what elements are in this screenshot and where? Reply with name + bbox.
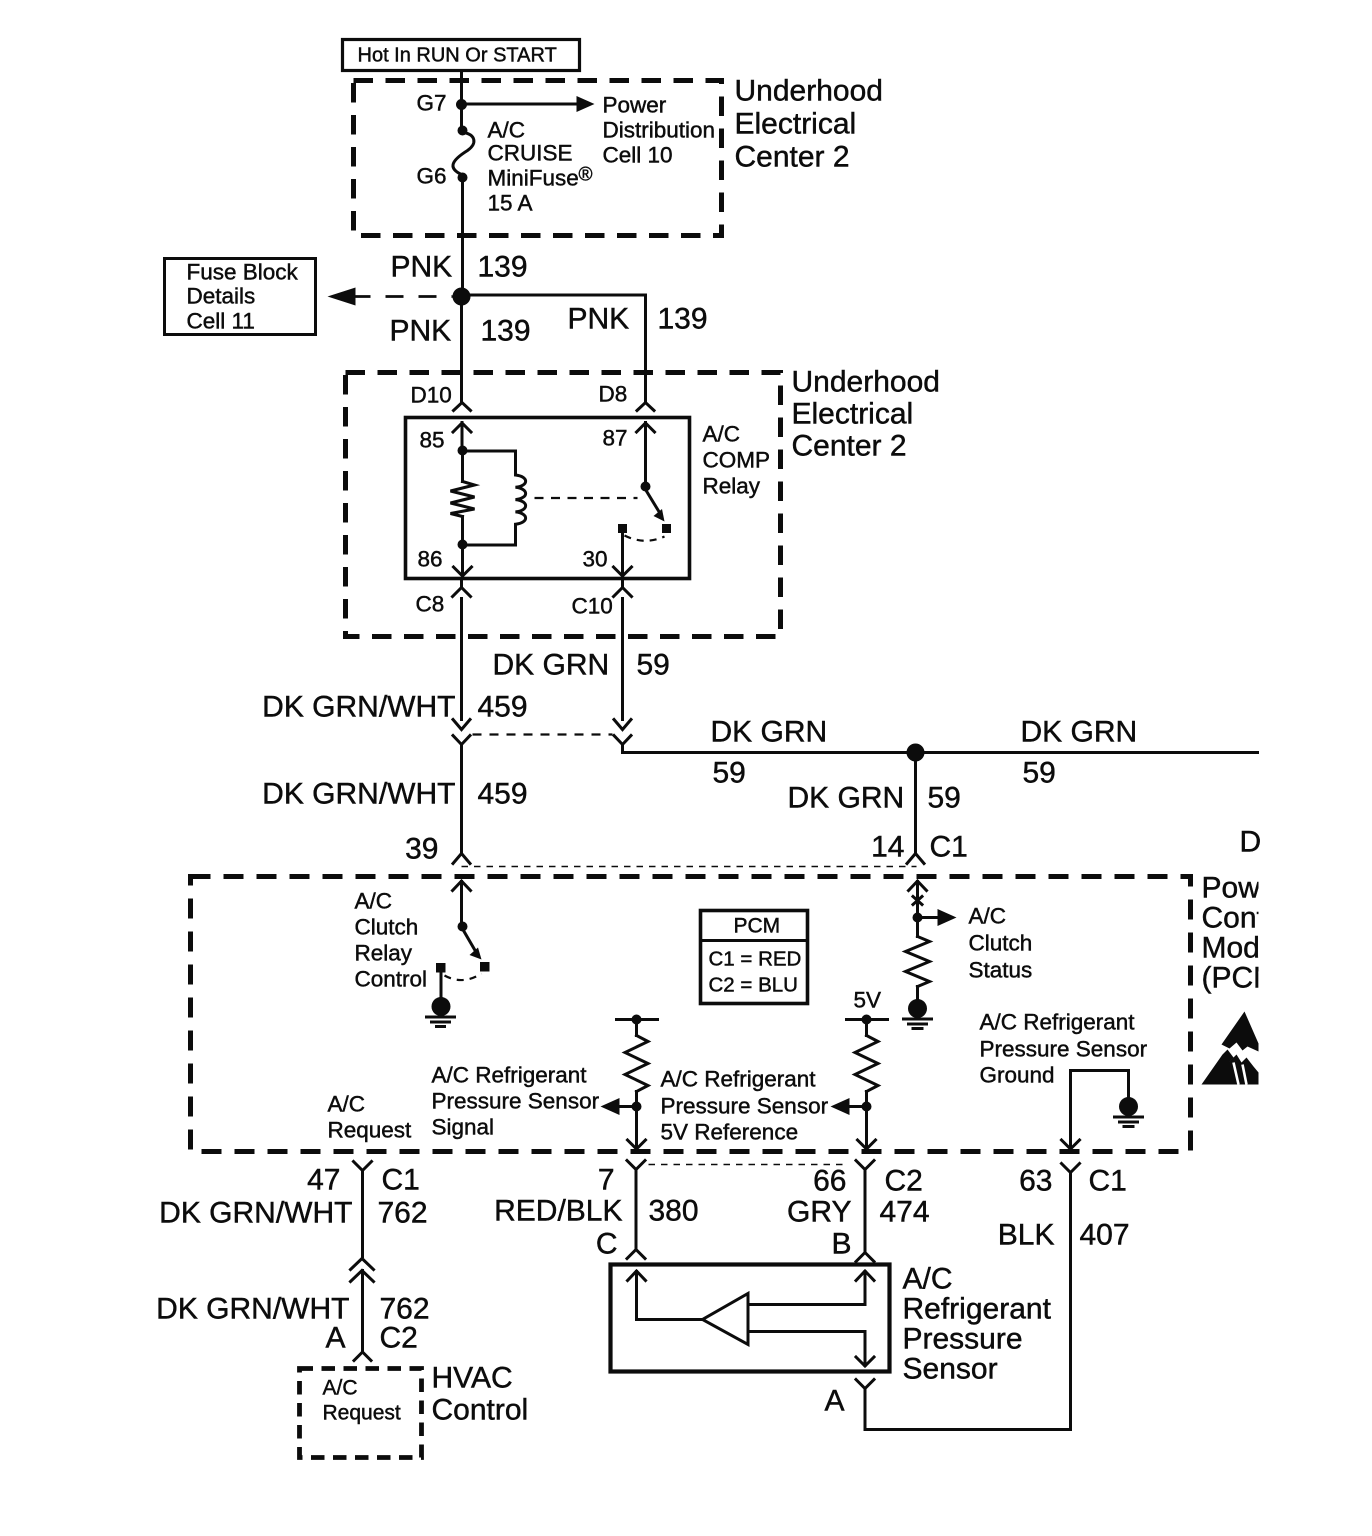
node 5V reference [862,1102,872,1112]
svg-text:474: 474 [880,1196,930,1229]
dashed connector line pins 39-14 [462,866,917,868]
svg-text:14: 14 [871,831,904,864]
svg-text:DK GRN/WHT: DK GRN/WHT [156,1293,349,1326]
svg-text:Electrical: Electrical [735,108,857,141]
sensor internal: amp output run [637,1318,703,1321]
label BLK 407 [998,1219,1130,1252]
node 5V [862,1015,872,1025]
sensor internal: lower run to pin A with down arrow [748,1332,874,1367]
wire signal down to pin 7 [628,1107,646,1150]
svg-text:Cell 10: Cell 10 [603,143,673,168]
svg-text:COMP: COMP [703,448,771,473]
arrow to 5V Reference label [831,1098,867,1115]
svg-text:Power: Power [1202,872,1287,905]
svg-text:Clutch: Clutch [355,915,419,940]
relay coil resistor [451,456,475,540]
svg-text:B: B [831,1228,851,1261]
svg-text:G7: G7 [417,91,447,116]
dashed link coil to switch [535,497,638,499]
svg-text:Module: Module [1202,932,1300,965]
svg-text:Center 2: Center 2 [735,141,850,174]
svg-text:Cell 11: Cell 11 [187,309,255,334]
svg-text:C8: C8 [416,592,445,617]
svg-text:C2: C2 [380,1322,418,1355]
svg-text:DK GRN: DK GRN [711,716,828,749]
inline connector on 59 wire [614,720,631,745]
svg-text:Ground: Ground [980,1063,1055,1088]
svg-text:Fuse Block: Fuse Block [187,260,299,285]
underhood electrical center 2 box (top) [354,81,722,236]
svg-text:407: 407 [1080,1219,1130,1252]
ground (clutch status) [904,999,932,1029]
svg-text:GRY: GRY [787,1196,851,1229]
svg-text:459: 459 [478,691,528,724]
svg-text:C1 = RED: C1 = RED [709,948,802,971]
pin 86 arrow down [418,545,472,577]
svg-text:30: 30 [583,547,608,572]
svg-text:Request: Request [328,1118,413,1143]
pin C10 [572,579,632,619]
wire C8 down to connector 459 [460,599,463,720]
label A/C Clutch Relay Control [355,889,428,992]
svg-text:A/C: A/C [488,118,526,143]
svg-text:MiniFuse: MiniFuse [488,166,579,191]
5V supply bar [847,1018,888,1021]
svg-text:C1: C1 [1089,1165,1127,1198]
dashed arc between contacts [445,974,482,981]
svg-text:DK GRN/WHT: DK GRN/WHT [262,691,455,724]
label A/C Refrigerant Pressure Sensor [903,1263,1052,1386]
pin 39 connector half [453,854,470,864]
pin 63 labels [1019,1165,1127,1198]
label A/C Clutch Status [969,904,1033,983]
dashed arc between contacts [625,536,665,541]
svg-text:380: 380 [649,1195,699,1228]
svg-text:59: 59 [928,782,961,815]
svg-text:PNK: PNK [568,303,630,336]
svg-text:Hot In RUN Or START: Hot In RUN Or START [358,45,557,67]
wire C10 down to connector 59 [621,599,624,720]
svg-text:(PCM): (PCM) [1202,962,1289,995]
svg-text:C1: C1 [382,1164,420,1197]
5V resistor [855,1020,878,1102]
relay switch pivot [641,482,651,492]
label DK GRN 59 (vertical pair) [493,649,670,682]
svg-text:459: 459 [478,778,528,811]
svg-text:Refrigerant: Refrigerant [903,1293,1052,1326]
svg-text:15 A: 15 A [488,191,533,216]
svg-text:DK GRN: DK GRN [493,649,610,682]
svg-text:Clutch: Clutch [969,931,1033,956]
node PNK junction [453,288,471,306]
label A/C Request (PCM) [328,1092,413,1143]
HVAC control dashed box [300,1369,422,1458]
pin 14 arrow into PCM [909,881,927,914]
wire pin 66 down to sensor [864,1178,867,1253]
svg-text:Power: Power [603,93,667,118]
dashed connector line pins 7-66 [649,1164,849,1166]
svg-text:63: 63 [1019,1165,1052,1198]
svg-text:PCM: PCM [734,915,781,938]
sensor internal: pin C arrow up [628,1271,646,1320]
svg-text:Signal: Signal [432,1115,495,1140]
label GRY 474 [787,1196,930,1229]
svg-text:®: ® [579,165,593,186]
arrow to Signal label [601,1098,637,1115]
svg-text:C2: C2 [885,1165,923,1198]
pin 87 arrow into relay [603,423,655,483]
PCM dashed box [191,877,1191,1152]
node 85 [458,446,468,456]
wire from hot box into UEC2 [460,71,463,127]
svg-text:A/C: A/C [703,422,741,447]
wire junction to D8 branch (right) [462,294,646,297]
svg-text:A/C: A/C [969,904,1007,929]
label A/C COMP Relay [703,422,771,499]
relay box A/C COMP [406,418,690,579]
svg-text:D10: D10 [411,383,452,408]
label PNK 139 (right branch) [568,303,708,336]
sensor internal: amplifier triangle [703,1294,749,1345]
label HVAC Control [432,1362,529,1427]
svg-text:A/C Refrigerant: A/C Refrigerant [432,1063,588,1088]
svg-text:RED/BLK: RED/BLK [494,1195,622,1228]
node G7 [456,99,467,110]
svg-text:139: 139 [658,303,708,336]
svg-text:139: 139 [478,251,528,284]
svg-text:A: A [824,1385,844,1418]
svg-text:47: 47 [307,1164,340,1197]
wire 459 down to pin 39 [460,745,463,853]
svg-text:59: 59 [1023,757,1056,790]
svg-text:Pressure Sensor: Pressure Sensor [432,1089,600,1114]
label DK GRN 59 (right of junction) [1021,716,1138,790]
arrow to A/C Clutch Status [918,909,957,926]
svg-text:139: 139 [481,315,531,348]
pin 63 connector [1062,1164,1080,1181]
signal pullup bar [617,1018,658,1021]
svg-text:DK GRN/WHT: DK GRN/WHT [262,778,455,811]
svg-text:DK GRN/WHT: DK GRN/WHT [159,1197,352,1230]
svg-text:762: 762 [378,1197,428,1230]
pin 7 labels [598,1164,615,1197]
pin 66 labels [813,1165,923,1198]
clutch status resistor [906,923,930,999]
label PNK 139 (above junction) [391,251,528,284]
wire G7 to power distribution arrow [462,103,581,106]
svg-text:Control: Control [355,967,428,992]
label Underhood Electrical Center 2 (top) [735,75,883,174]
svg-text:BLK: BLK [998,1219,1055,1252]
label A/C Request (HVAC) [323,1377,401,1425]
hot-in-run box [343,40,580,71]
svg-text:87: 87 [603,426,628,451]
ground (clutch relay control) [427,997,455,1027]
x mark on clutch status wire [913,897,922,905]
inline connector on 459 wire [453,720,470,745]
HVAC connector half [354,1352,371,1361]
wire pin 47 down [361,1178,364,1257]
label A/C Refrigerant Pressure Sensor 5V Reference [661,1067,829,1145]
svg-text:DK GRN: DK GRN [788,782,905,815]
svg-text:G6: G6 [417,164,447,189]
wire pin63 down arrow [1062,1140,1080,1149]
svg-text:D: D [1240,826,1262,859]
wire break symbol [351,1259,374,1282]
pin 66 connector [856,1161,874,1178]
label DK GRN/WHT 762 (upper) [159,1197,427,1230]
svg-text:Pressure: Pressure [903,1323,1023,1356]
signal resistor [625,1020,648,1102]
ESD symbol (clipped) [1202,1012,1259,1085]
wire pin 7 down to sensor [635,1178,638,1250]
svg-text:Sensor: Sensor [903,1353,998,1386]
svg-text:39: 39 [405,833,438,866]
svg-text:Details: Details [187,284,256,309]
label DK GRN 59 (left of junction) [711,716,828,790]
pin 14 label [871,831,968,864]
wire fuse down through box1 to junction [461,183,464,292]
dashed arrow to fuse block [328,288,453,306]
svg-text:Center 2: Center 2 [792,430,907,463]
pin D8 [599,382,655,411]
wire 59 bend to long horizontal DK GRN [623,745,1258,753]
label Power Distribution Cell 10 [603,93,716,168]
svg-text:PNK: PNK [390,315,452,348]
label Power Control Module (PCM) clipped at right [1202,872,1300,995]
svg-text:C: C [596,1228,618,1261]
svg-text:Pressure Sensor: Pressure Sensor [980,1037,1148,1062]
ground (pressure sensor) [1115,1097,1143,1127]
relay coil [463,451,526,545]
pin B connector [856,1253,874,1262]
svg-text:59: 59 [637,649,670,682]
svg-text:Distribution: Distribution [603,118,716,143]
wire BLK 407 down and to sensor A [865,1181,1071,1430]
pin 30 arrow down [583,534,632,577]
label Underhood Electrical Center 2 (second) [792,366,940,463]
svg-text:A/C: A/C [903,1263,953,1296]
svg-text:A/C Refrigerant: A/C Refrigerant [661,1067,817,1092]
pin 47 connector [354,1162,372,1178]
pin 7 connector [627,1161,645,1178]
node clutch status [913,913,923,923]
svg-text:C1: C1 [930,831,968,864]
pin C connector [627,1250,645,1259]
label DK GRN 59 (above pin 14) [788,782,961,815]
svg-text:Underhood: Underhood [792,366,940,399]
fuse block details box [165,259,316,335]
svg-text:A/C Refrigerant: A/C Refrigerant [980,1010,1136,1035]
pin 47 labels [307,1164,420,1197]
svg-text:Relay: Relay [703,474,761,499]
svg-text:C10: C10 [572,594,613,619]
svg-text:66: 66 [813,1165,846,1198]
svg-text:A: A [325,1322,345,1355]
ground net wiring [1071,1071,1129,1149]
svg-text:5V Reference: 5V Reference [661,1120,799,1145]
wire right branch down to D8 [644,295,647,403]
label DK GRN/WHT 762 (lower) [156,1293,429,1326]
wire 5V ref down to pin 66 [858,1107,876,1150]
pin A labels (HVAC) [325,1322,417,1355]
svg-text:Control: Control [432,1394,529,1427]
relay switch contacts [618,524,627,533]
label DK GRN/WHT 459 (upper) [262,691,527,724]
sensor internal: pin B arrow up and input [748,1271,874,1305]
svg-text:Pressure Sensor: Pressure Sensor [661,1094,829,1119]
A/C refrigerant pressure sensor box [611,1265,890,1372]
label A/C Refrigerant Pressure Sensor Signal [432,1063,600,1140]
svg-text:D8: D8 [599,382,628,407]
svg-text:HVAC: HVAC [432,1362,513,1395]
dashed connector link [473,733,613,735]
svg-text:C2 = BLU: C2 = BLU [709,974,798,997]
relay switch blade [646,490,665,522]
pin 14 connector half [907,854,924,864]
svg-text:DK GRN: DK GRN [1021,716,1138,749]
wire contact to ground [440,971,443,998]
svg-text:A/C: A/C [355,889,393,914]
node signal [632,1102,642,1112]
wire to HVAC [361,1271,364,1353]
svg-text:59: 59 [713,757,746,790]
underhood electrical center 2 box (second) [346,373,781,637]
PCM connector id box [701,911,808,1004]
clutch relay control switch pivot [458,922,468,932]
node 86 [458,540,468,550]
svg-text:Underhood: Underhood [735,75,883,108]
clutch relay control switch blade [464,931,482,960]
pin D10 [411,383,471,411]
svg-text:85: 85 [420,428,445,453]
label DK GRN/WHT 459 (lower) [262,778,527,811]
pin A connector (below sensor) [856,1380,874,1389]
svg-text:PNK: PNK [391,251,453,284]
switch contacts [436,963,446,973]
pin 85 arrow into relay [420,423,472,453]
svg-text:Electrical: Electrical [792,398,914,431]
svg-text:A/C: A/C [323,1377,358,1400]
svg-text:7: 7 [598,1164,615,1197]
wire junction down to D10 [460,297,463,403]
svg-text:Control: Control [1202,902,1299,935]
fuse A/C CRUISE MiniFuse 15A [417,118,593,216]
svg-text:Status: Status [969,958,1033,983]
svg-text:A/C: A/C [328,1092,366,1117]
pin 39 arrow into PCM [453,881,471,923]
svg-text:Request: Request [323,1402,401,1425]
label A/C Refrigerant Pressure Sensor Ground [980,1010,1148,1088]
svg-text:CRUISE: CRUISE [488,141,573,166]
svg-text:86: 86 [418,547,443,572]
wire junction down to pin 14 [914,753,917,853]
svg-text:Relay: Relay [355,941,413,966]
label RED/BLK 380 [494,1195,698,1228]
node signal top [632,1015,642,1025]
label PNK 139 (below junction) [390,315,531,348]
svg-text:5V: 5V [854,988,882,1013]
pin C8 [416,579,471,617]
node DK GRN junction [907,744,925,762]
